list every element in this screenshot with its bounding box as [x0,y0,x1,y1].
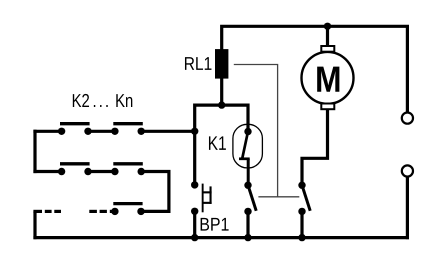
contact B top dot [298,182,305,189]
ladder contact row1 dot3 [111,128,118,135]
label M inside motor [317,67,339,92]
wire contact A bottom to rail [246,211,249,239]
wire row3 lead to contact Kn [110,210,115,213]
wire row2 left segment [33,170,61,173]
wire motor bottom lead to contact B [302,110,328,185]
contact B bottom dot [298,208,305,215]
wire row1 middle segment [88,130,115,133]
ladder contact row2 bridge bar [60,162,90,165]
mechanical link bar between contacts A and B [258,196,299,198]
label ellipsis dots [94,105,108,107]
wire bottom rail [33,236,409,239]
wire ladder left vertical row1 to row2 [33,130,36,173]
label K1 [209,136,226,149]
wire motor top lead [326,26,329,46]
pushbutton BP1 top terminal dot [191,181,198,188]
contact K1 top terminal dot [244,128,251,135]
contact A top dot [244,182,251,189]
wire BP1 bottom to rail [193,211,196,239]
pushbutton BP1 actuator rung upper [204,191,212,193]
terminal upper open circle [402,113,413,124]
ladder contact Kn row3 dot2 [137,208,144,215]
motor M1 body circle [302,52,354,104]
contact K1 fixed contact bar [239,157,250,160]
label RL1 [185,57,211,70]
label K2 [73,94,89,107]
pushbutton BP1 bridge contact [202,184,204,213]
wire row3 dash 4 [100,210,107,213]
wire row3 left stub [33,210,42,213]
mechanical link from RL1 coil [234,65,278,197]
junction dot node N1 under RL1 [218,101,225,108]
ladder contact row1 second bridge bar [113,122,143,125]
contact K1 blade [242,132,248,159]
pushbutton BP1 bottom terminal dot [191,208,198,215]
contact A bottom dot [244,208,251,215]
junction dot row1 right on left branch [191,128,198,135]
motor brush top [321,46,334,52]
junction dot rail at K1 branch [244,234,251,241]
wire lower terminal to rail [406,177,409,239]
ladder contact K2 row1 bridge bar [60,122,90,125]
contact K1 enclosure ellipse [233,124,263,168]
ladder contact Kn row3 dot1 [111,208,118,215]
ladder contact K2 row1 dot1 [58,128,65,135]
wire row2 middle segment [88,170,115,173]
ladder contact Kn row3 bridge bar [113,202,142,205]
wire K1 lower stem [247,159,250,185]
label BP1 [201,218,229,231]
label Kn [116,94,132,107]
junction dot rail at motor branch [298,234,305,241]
motor brush bottom [321,104,334,110]
ladder contact row2 dot4 [138,168,145,175]
wire RL1 bottom lead [220,78,223,105]
wire top bus from RL1 branch to right terminal branch [222,26,408,111]
ladder contact row2 dot1 [58,168,65,175]
ladder contact row2 dot2 [84,168,91,175]
wire row3 dash 1 [45,210,52,213]
wire row3 dash 3 [89,210,97,213]
ladder contact row2 second bridge bar [113,162,143,165]
wire row2 right link down to row3 [141,172,169,212]
contact B blade [302,185,310,211]
wire node N1 to left branch down to BP1 [195,105,224,185]
junction dot rail at BP1 branch [191,234,198,241]
pushbutton BP1 actuator rung lower [204,202,212,204]
ladder contact row1 dot4 [138,128,145,135]
relay coil RL1 [215,49,228,79]
ladder contact K2 row1 dot2 [84,128,91,135]
wire row3 dash 2 [54,210,61,213]
pushbutton BP1 actuator stem [210,186,212,204]
wire row1 right segment to junction [141,130,196,133]
junction dot at motor top on bus [324,23,331,30]
wire contact B bottom to rail [300,211,303,239]
terminal lower open circle [402,165,413,176]
wire row3 left vertical to rail [33,211,36,239]
ladder contact row2 dot3 [111,168,118,175]
wire node N1 to K1 branch [220,105,248,131]
wire row1 left segment [33,130,61,133]
contact A blade [248,185,256,211]
